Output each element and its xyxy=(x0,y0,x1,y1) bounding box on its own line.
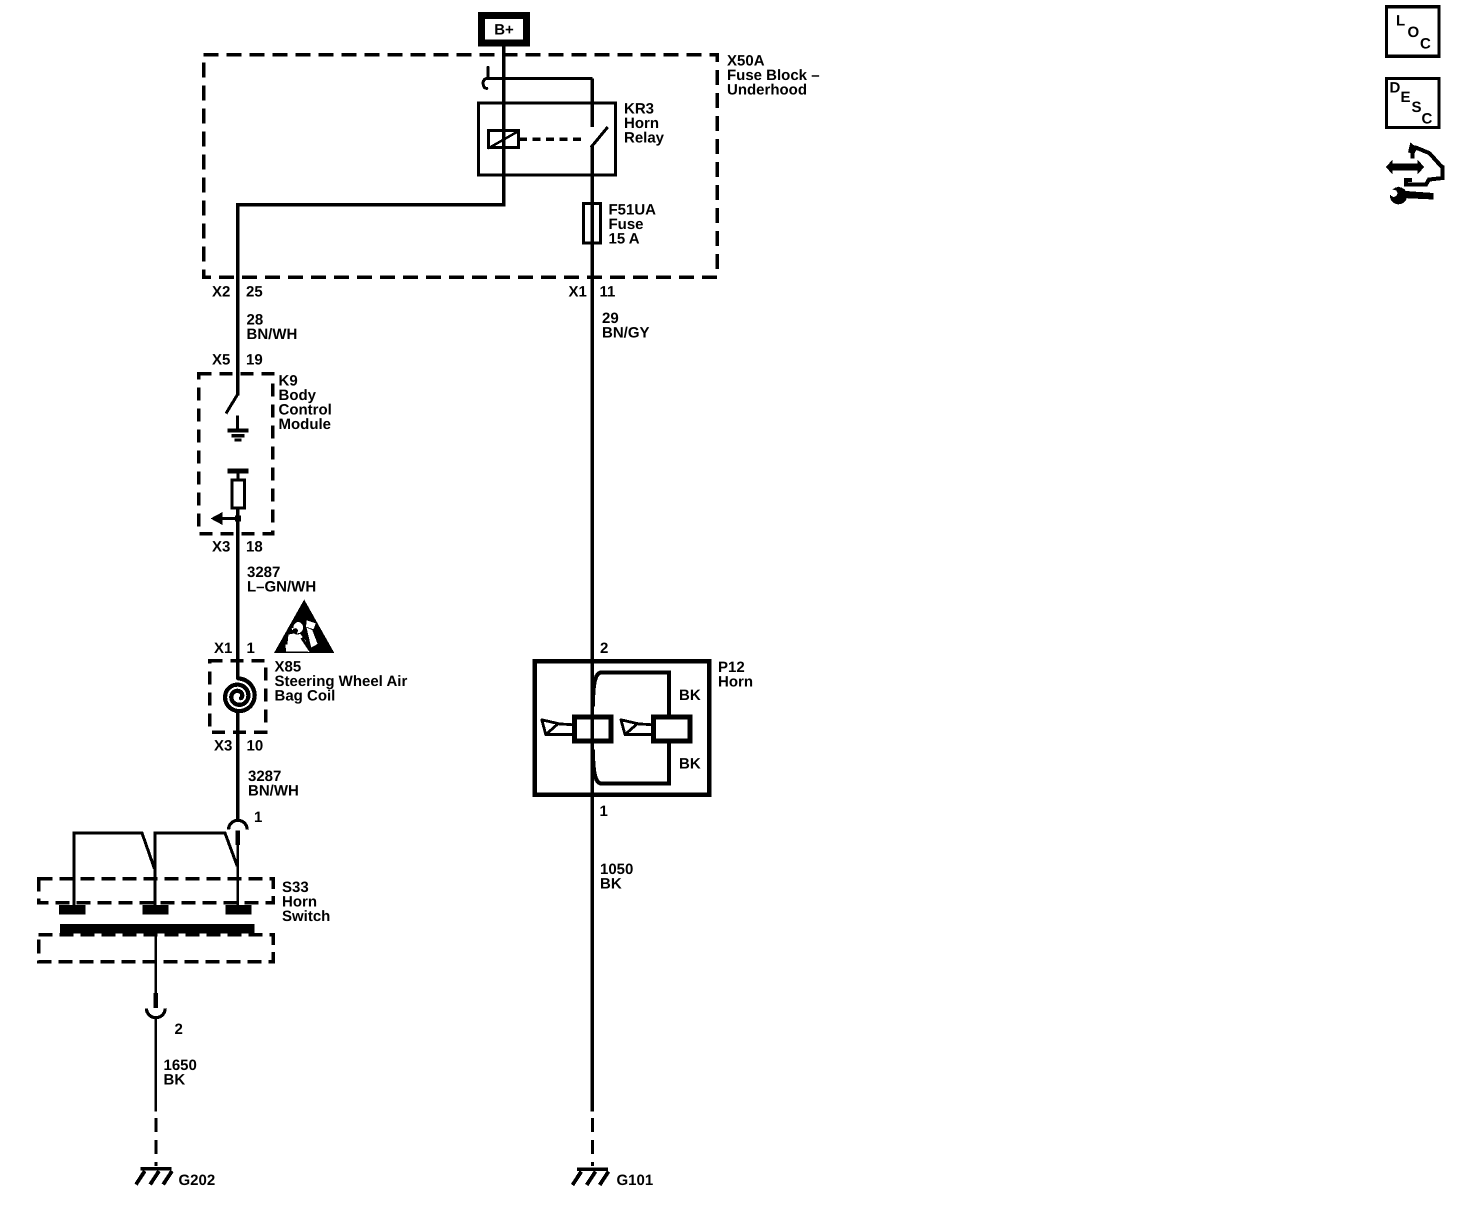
relay KR3 box xyxy=(479,103,616,175)
connector pin X2 25 xyxy=(212,284,263,301)
svg-text:Underhood: Underhood xyxy=(727,82,807,99)
label F51UA Fuse 15 A xyxy=(609,202,657,248)
connector pin X1 1 xyxy=(214,640,255,657)
svg-text:Bag Coil: Bag Coil xyxy=(275,688,336,705)
horn internal loop upper xyxy=(593,672,669,714)
label K9 Body Control Module xyxy=(279,373,332,434)
hotlink arrow icon curved arrow xyxy=(1406,143,1443,185)
svg-text:E: E xyxy=(1401,89,1411,106)
horn switch contact pad left xyxy=(59,905,86,915)
relay coil xyxy=(488,131,520,149)
svg-text:X3: X3 xyxy=(214,738,232,755)
svg-text:1: 1 xyxy=(247,640,255,657)
svg-text:BN/WH: BN/WH xyxy=(248,783,299,800)
label KR3 Horn Relay xyxy=(624,101,665,147)
svg-text:10: 10 xyxy=(247,738,264,755)
svg-text:Module: Module xyxy=(279,416,332,433)
connector pin X3 10 xyxy=(214,738,263,755)
svg-text:BN/GY: BN/GY xyxy=(602,325,650,342)
connector pin X5 19 xyxy=(212,352,263,369)
svg-text:18: 18 xyxy=(246,539,263,556)
svg-text:2: 2 xyxy=(600,640,608,657)
wire relay coil to left branch horizontal xyxy=(236,203,506,207)
horn trumpet glyph left xyxy=(542,720,572,735)
svg-text:Switch: Switch xyxy=(282,908,330,925)
relay actuation dashed link xyxy=(519,137,581,141)
fuse F51UA xyxy=(584,204,601,244)
horn switch S33 dashed box upper xyxy=(39,879,274,903)
horn switch contact loop middle xyxy=(155,833,237,906)
hotlink arrow icon double arrow xyxy=(1386,160,1424,175)
svg-text:X1: X1 xyxy=(214,640,232,657)
svg-text:2: 2 xyxy=(175,1021,183,1038)
BCM output wire xyxy=(236,508,240,534)
wire B+ to relay coil and down to corner xyxy=(502,44,506,206)
body control module K9 dashed box xyxy=(199,374,273,534)
svg-text:BK: BK xyxy=(679,756,701,773)
svg-text:Horn: Horn xyxy=(718,674,753,691)
svg-text:X5: X5 xyxy=(212,352,230,369)
pin label 2 xyxy=(175,1021,183,1038)
LOC navigation icon xyxy=(1387,7,1440,57)
svg-text:X3: X3 xyxy=(212,539,230,556)
wire label 1650 BK xyxy=(164,1057,197,1089)
label X50A Fuse Block Underhood xyxy=(727,53,820,99)
pin label 2 at horn xyxy=(600,640,608,657)
horn terminal box right xyxy=(654,717,691,741)
wire label 28 BN/WH xyxy=(247,312,298,344)
BCM input wire stub xyxy=(236,374,240,396)
svg-text:G101: G101 xyxy=(617,1172,654,1189)
wire label 3287 L-GN/WH xyxy=(247,564,316,596)
svg-text:11: 11 xyxy=(600,284,616,301)
svg-text:G202: G202 xyxy=(179,1172,216,1189)
svg-text:X1: X1 xyxy=(569,284,587,301)
BCM internal voltage bar xyxy=(228,471,249,480)
horn internal loop lower xyxy=(593,744,669,784)
wire connector to ground lead xyxy=(155,1018,158,1112)
svg-text:B+: B+ xyxy=(494,22,514,39)
inline connector female cup pin 1 xyxy=(229,820,248,829)
svg-text:19: 19 xyxy=(246,352,263,369)
hidden wire to G202 xyxy=(154,1118,157,1166)
svg-text:O: O xyxy=(1408,24,1420,41)
svg-text:Relay: Relay xyxy=(624,130,665,147)
BCM internal switch xyxy=(226,395,238,414)
svg-text:S: S xyxy=(1412,99,1422,116)
svg-text:25: 25 xyxy=(246,284,263,301)
battery feed terminal B+ xyxy=(482,16,527,44)
hidden wire to G101 xyxy=(591,1118,594,1166)
splice hook symbol at B+ branch xyxy=(483,67,505,88)
wire relay switch through fuse to horn and G101 xyxy=(591,146,595,1112)
label BK upper xyxy=(679,687,701,704)
horn P12 box xyxy=(535,661,710,795)
svg-text:BK: BK xyxy=(679,687,701,704)
relay switch contact xyxy=(591,127,608,148)
svg-text:BK: BK xyxy=(600,876,622,893)
label P12 Horn xyxy=(718,659,753,691)
SIR air bag warning triangle xyxy=(274,600,334,654)
svg-text:15 A: 15 A xyxy=(609,231,640,248)
svg-text:1: 1 xyxy=(254,809,262,826)
BCM internal ground symbol xyxy=(228,416,249,441)
horn switch contact pad right xyxy=(226,905,252,915)
wire label 29 BN/GY xyxy=(602,310,650,342)
ground G101 xyxy=(573,1169,609,1185)
wire blade to horn switch contact xyxy=(237,844,240,906)
label G202 xyxy=(179,1172,216,1189)
horn trumpet glyph right xyxy=(621,720,651,735)
ground G202 xyxy=(136,1169,172,1185)
inline connector male blade xyxy=(236,831,241,846)
label G101 xyxy=(617,1172,654,1189)
svg-text:L: L xyxy=(1396,13,1405,30)
horn switch S33 dashed box lower xyxy=(39,935,274,962)
connector male blade pin 2 xyxy=(154,993,159,1008)
pin label 1 xyxy=(254,809,262,826)
BCM internal resistor xyxy=(232,480,245,508)
svg-text:L–GN/WH: L–GN/WH xyxy=(247,579,316,596)
horn switch common bar xyxy=(60,924,255,934)
wire left branch down to BCM xyxy=(236,205,240,374)
connector female cup pin 2 xyxy=(146,1008,165,1017)
horn terminal box left xyxy=(575,717,612,741)
wire branch to relay switch xyxy=(504,78,593,127)
svg-text:BK: BK xyxy=(164,1072,186,1089)
connector pin X1 11 xyxy=(569,284,616,301)
svg-text:C: C xyxy=(1420,36,1431,53)
horn switch contact loop left xyxy=(74,833,155,906)
svg-text:X2: X2 xyxy=(212,284,230,301)
BCM signal arrow xyxy=(211,512,241,525)
X85 coil spiral xyxy=(225,678,255,711)
label BK lower xyxy=(679,756,701,773)
steering wheel air bag coil X85 dashed box xyxy=(210,661,266,733)
DESC navigation icon xyxy=(1387,79,1440,128)
svg-text:C: C xyxy=(1422,111,1433,128)
wire BCM to air bag coil and horn switch xyxy=(236,534,240,821)
wire label 3287 BN/WH xyxy=(248,768,299,800)
svg-text:D: D xyxy=(1390,80,1401,97)
label X85 Steering Wheel Air Bag Coil xyxy=(275,659,408,705)
connector pin X3 18 xyxy=(212,539,263,556)
hotlink arrow icon wrench xyxy=(1388,187,1434,205)
label S33 Horn Switch xyxy=(282,879,330,925)
svg-text:1: 1 xyxy=(600,803,608,820)
pin label 1 at horn xyxy=(600,803,608,820)
svg-text:BN/WH: BN/WH xyxy=(247,326,298,343)
wire horn switch to connector xyxy=(155,934,158,994)
wire label 1050 BK xyxy=(600,861,633,893)
horn switch contact pad middle xyxy=(143,905,169,915)
fuse block X50A dashed outline xyxy=(204,55,718,278)
